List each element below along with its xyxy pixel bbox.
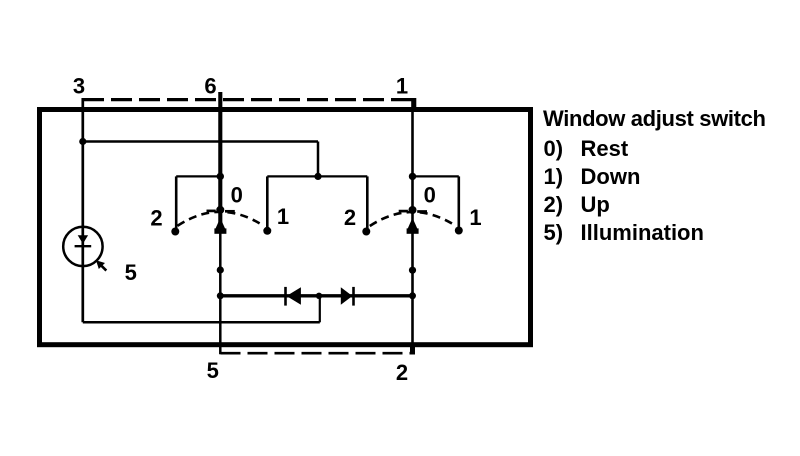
switch S2 bracket: right vertical to contact 1 bbox=[457, 176, 460, 230]
switch S2 bracket: right horizontal to contact 1 bbox=[413, 175, 459, 177]
switch S2 pivot tick bars bbox=[399, 210, 408, 213]
wire: vertical drop of feed branch bbox=[317, 142, 320, 177]
switch S1 wiper arrow bbox=[214, 218, 226, 234]
switch S1 pivot tick bars bbox=[207, 210, 216, 213]
svg-text:1: 1 bbox=[396, 74, 408, 99]
svg-text:1: 1 bbox=[469, 205, 481, 230]
wire: terminal 1 vertical (switch S2 pole) bbox=[411, 98, 414, 354]
node: S2 lower wire junction dot bbox=[409, 267, 416, 274]
diode D2 (cathode right) triangle bbox=[341, 287, 353, 305]
switch S1 bracket: right vertical from contact 1 bbox=[266, 176, 269, 230]
node: diode row left junction bbox=[217, 292, 224, 299]
switch S1 dashed wiper arc bbox=[178, 212, 264, 226]
svg-text:1: 1 bbox=[277, 204, 289, 229]
diode D1 (cathode left) triangle bbox=[287, 287, 301, 305]
bottom dashed connector strip (terminals 5,2) bbox=[221, 352, 414, 355]
svg-text:1): 1) bbox=[544, 164, 564, 189]
svg-text:0: 0 bbox=[231, 183, 243, 208]
wire: terminal 6 vertical (switch S1 pole, thick upper part) bbox=[218, 92, 222, 233]
node: S1 lower wire junction dot bbox=[217, 266, 224, 273]
wire: feed rail to both switch contacts bbox=[267, 175, 367, 177]
switch S1 contact 2 dot bbox=[171, 228, 179, 236]
LED diode triangle bbox=[78, 235, 88, 244]
svg-text:2): 2) bbox=[544, 192, 564, 217]
svg-text:5): 5) bbox=[544, 220, 564, 245]
switch S1 contact 1 dot bbox=[263, 227, 271, 235]
top dashed connector strip (terminals 3,6,1) bbox=[83, 98, 416, 101]
svg-text:5: 5 bbox=[125, 260, 137, 285]
svg-text:Rest: Rest bbox=[581, 136, 629, 161]
svg-text:Window adjust switch: Window adjust switch bbox=[543, 106, 766, 131]
switch S2 bracket: left vertical to contact 2 bbox=[366, 176, 369, 231]
svg-text:2: 2 bbox=[344, 205, 356, 230]
svg-text:Illumination: Illumination bbox=[581, 220, 704, 245]
svg-text:Up: Up bbox=[581, 192, 610, 217]
svg-text:6: 6 bbox=[204, 74, 216, 99]
LED cathode bar bbox=[75, 245, 92, 247]
svg-text:3: 3 bbox=[73, 74, 85, 99]
node: junction on terminal 3 wire bbox=[79, 138, 86, 145]
switch S2 dashed wiper arc bbox=[370, 212, 456, 226]
top dashed strip right end stub bbox=[412, 98, 416, 110]
LED illumination arrow bbox=[96, 260, 106, 270]
svg-text:5: 5 bbox=[207, 358, 219, 383]
switch body outline box bbox=[40, 110, 531, 345]
switch S2 pivot contact 0 dot bbox=[409, 206, 417, 214]
wire: diode midpoint stem down bbox=[319, 296, 321, 323]
diode D1 cathode bar bbox=[284, 287, 287, 306]
svg-text:2: 2 bbox=[150, 206, 162, 231]
switch S1 bracket: left vertical to contact 2 bbox=[175, 176, 178, 231]
diode D2 cathode bar bbox=[352, 287, 355, 306]
switch S2 wiper arrow bbox=[407, 218, 419, 234]
node: diode midpoint junction bbox=[316, 293, 322, 299]
wire: LED return horizontal bbox=[83, 321, 320, 324]
switch S1 pivot contact 0 dot bbox=[216, 206, 224, 214]
switch S1 bracket junction node on pole bbox=[217, 173, 224, 180]
wire: switch S1 lower vertical to terminal 5 bbox=[219, 230, 222, 354]
svg-text:0: 0 bbox=[424, 183, 436, 208]
LED lamp circle bbox=[63, 227, 102, 266]
switch S1 bracket: left horizontal to contact 2 bbox=[176, 175, 220, 177]
node: feed junction bbox=[314, 173, 321, 180]
switch S2 contact 1 dot bbox=[455, 227, 463, 235]
wire: diode row horizontal bbox=[220, 294, 412, 297]
node: diode row right junction bbox=[409, 292, 416, 299]
svg-text:Down: Down bbox=[581, 164, 641, 189]
wire: terminal 3 vertical (through LED) bbox=[81, 98, 84, 322]
bottom dashed strip right end stub bbox=[410, 346, 415, 355]
wire: horizontal branch from terminal 3 to switch feed bbox=[83, 140, 318, 143]
switch S2 bracket junction node on pole bbox=[409, 173, 416, 180]
switch S2 contact 2 dot bbox=[362, 228, 370, 236]
svg-text:0): 0) bbox=[544, 136, 564, 161]
svg-text:2: 2 bbox=[396, 360, 408, 385]
